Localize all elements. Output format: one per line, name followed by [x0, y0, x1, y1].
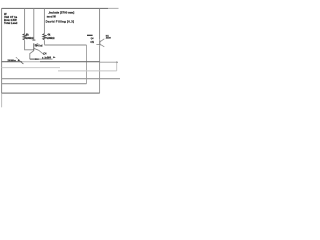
wire long net y61.6	[2, 61, 22, 63]
diagonal branch wire	[19, 60, 23, 64]
wire top rail	[2, 7, 108, 9]
junction dot	[35, 58, 37, 60]
svg-text:mod W: mod W	[47, 14, 56, 18]
wire source net tail	[39, 58, 52, 60]
arrowhead on source net	[37, 59, 39, 60]
wire R2 bottom	[43, 40, 45, 45]
wire base net horizontal	[44, 44, 86, 46]
wire U-turn vertical	[116, 62, 118, 71]
wire left border lower fade	[1, 93, 3, 107]
svg-text:David Filling [0.3]: David Filling [0.3]	[46, 19, 75, 23]
transistor M1	[96, 39, 104, 47]
corner dot right	[116, 62, 118, 64]
arrow tick above label	[16, 57, 18, 58]
dark dash label	[87, 34, 93, 36]
wire bus y78.6	[2, 78, 120, 80]
wire return y70.9	[58, 70, 117, 72]
svg-text:s_bdM4: s_bdM4	[42, 56, 52, 59]
wire drop at x86.5	[86, 45, 88, 84]
wire right seg y62.3	[100, 61, 117, 63]
svg-text:M4 bd: M4 bd	[35, 44, 43, 47]
capacitor plate tick	[32, 39, 35, 41]
wire R1 bottom	[25, 40, 34, 50]
wire M1 down	[99, 46, 101, 93]
wire left border	[1, 8, 3, 93]
svg-text:4.99kΩ: 4.99kΩ	[46, 37, 54, 40]
node A column wire	[24, 8, 26, 34]
wire faint y67.6	[2, 67, 60, 69]
wire bus y93.2	[2, 92, 100, 94]
resistor R2	[43, 34, 46, 40]
wire source net y59	[30, 58, 39, 60]
arrowhead flag	[53, 56, 56, 58]
resistor R1	[23, 34, 26, 40]
background	[0, 0, 120, 120]
wire top rail fade	[108, 7, 119, 9]
wire bus y83.6	[2, 83, 87, 85]
transistor M4	[30, 43, 44, 59]
svg-text:4.99kΩ: 4.99kΩ	[25, 37, 33, 40]
node C column wire	[43, 8, 45, 33]
svg-text:4k99: 4k99	[106, 37, 112, 40]
svg-text:Total Lead: Total Lead	[4, 21, 18, 25]
svg-text:.include [5700 mm]: .include [5700 mm]	[48, 11, 74, 15]
wire long net faint middle	[22, 61, 40, 63]
wire long net right	[40, 61, 100, 63]
svg-text:CN: CN	[90, 41, 94, 44]
junction dot at 2kWm	[18, 59, 20, 61]
node B column wire	[33, 8, 35, 40]
transistor M1 feed wire	[99, 8, 101, 40]
